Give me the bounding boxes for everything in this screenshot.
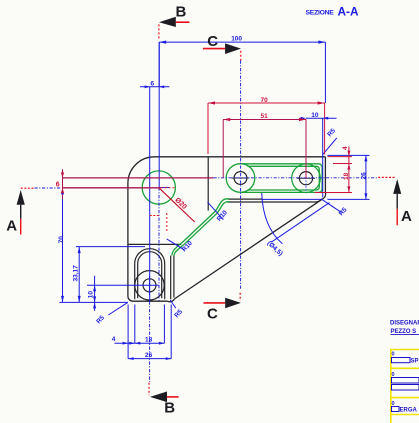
- svg-text:A-A: A-A: [338, 5, 359, 19]
- dim 26 right line: [365, 155, 367, 199]
- top-right-bottom fillet into diagonal: [323, 192, 326, 199]
- svg-text:C: C: [207, 33, 218, 50]
- leader (Ø4,5) arc: [262, 193, 283, 244]
- svg-text:SEZIONE: SEZIONE: [306, 9, 335, 16]
- dim 26 right ext bottom: [327, 198, 369, 200]
- C bottom tail: [204, 302, 226, 304]
- B top tail: [176, 21, 190, 23]
- leader R10 lower: [167, 239, 185, 250]
- dim 10 top-right line: [306, 117, 337, 119]
- left ext 10 center: [87, 284, 159, 286]
- arm slot right counterbore circle: [292, 164, 321, 193]
- leader R5 arm corner: [322, 200, 341, 213]
- dim 100 line: [159, 41, 325, 43]
- svg-text:10: 10: [311, 112, 319, 119]
- svg-text:100: 100: [231, 36, 242, 43]
- svg-text:PEZZO S: PEZZO S: [391, 329, 417, 335]
- B bottom arrow: [150, 392, 167, 403]
- svg-text:C: C: [207, 306, 218, 323]
- left ext 33,17 top: [76, 246, 145, 248]
- dim 100 ext right: [324, 42, 326, 103]
- left dim 10 line: [94, 276, 96, 311]
- arm bottom double edge: [227, 198, 262, 200]
- dim 6 line: [140, 86, 169, 88]
- svg-text:70: 70: [261, 97, 269, 104]
- red dim 4/18 right side: [315, 147, 352, 193]
- bottom dim 26 line: [128, 358, 171, 360]
- dim 6 ext left: [149, 87, 151, 301]
- red dim 51: [223, 120, 306, 179]
- web fillet curve inner: [174, 202, 229, 256]
- bottom-right fillet: [167, 299, 174, 302]
- svg-text:0: 0: [392, 372, 395, 378]
- svg-text:51: 51: [261, 113, 269, 120]
- leader R5 bottom-right: [170, 300, 176, 308]
- row2 rect1: [392, 378, 419, 384]
- bottom slot centerline dashdot: [149, 302, 151, 383]
- C section centerline through left hole: [240, 61, 242, 290]
- bottom edge: [133, 300, 168, 302]
- bottom ext x=171.2: [170, 305, 172, 359]
- row3 rect: [392, 407, 400, 412]
- big circle short horizontal: [159, 187, 170, 189]
- A-A left segment dashdot: [35, 187, 61, 189]
- svg-text:4: 4: [112, 336, 116, 343]
- red dots after big circle: [161, 187, 177, 189]
- B section line solid mid: [158, 42, 160, 187]
- right hole vertical centerline below: [305, 169, 307, 193]
- dim 26 right ext top: [327, 154, 369, 156]
- bottom hole vertical blue cross: [149, 276, 151, 295]
- yellow hline 3: [391, 397, 419, 399]
- svg-text:A: A: [401, 208, 412, 225]
- leader line under slot y=198.7: [262, 198, 323, 200]
- B bottom: red dotted stub: [148, 383, 150, 396]
- B top: red dotted stub: [158, 24, 160, 40]
- C bottom: red dots above: [239, 293, 241, 301]
- top-left fillet: [128, 157, 155, 184]
- svg-text:4: 4: [342, 146, 349, 150]
- svg-text:ERGA: ERGA: [400, 407, 418, 413]
- leg right double edge: [170, 256, 172, 300]
- leader R5 top-right: [323, 138, 337, 155]
- C top: red dotted stub below: [240, 51, 242, 61]
- B bottom tail: [167, 396, 179, 398]
- arm hole right cross horizontal: [297, 177, 315, 179]
- leader R10 upper: [208, 202, 224, 220]
- hole axis horizontal A-A right: [214, 177, 378, 179]
- svg-text:B: B: [164, 400, 175, 417]
- svg-text:26: 26: [145, 352, 153, 359]
- A left arrow: [17, 190, 25, 205]
- leader (Ø4,5) diagonal: [271, 203, 329, 243]
- leader R5 bottom-left: [108, 303, 127, 315]
- internal horizontal y=244.4: [128, 243, 181, 245]
- outer diagonal: [174, 199, 322, 299]
- C top arrow: [225, 43, 241, 54]
- arm hole right inner circle: [299, 172, 312, 185]
- arm hole left cross horizontal: [232, 177, 250, 179]
- A left shaft: [20, 205, 22, 219]
- yellow hline 4: [391, 414, 419, 416]
- C bottom arrow: [225, 298, 241, 309]
- svg-text:SP: SP: [411, 359, 419, 365]
- big boss circle: [142, 171, 175, 204]
- svg-text:18: 18: [343, 172, 350, 180]
- left ext bottom edge: [60, 301, 129, 303]
- right edge of part: [324, 157, 326, 192]
- yellow hline 2: [391, 367, 419, 369]
- svg-text:6: 6: [56, 181, 60, 188]
- yellow hline 1: [391, 349, 419, 351]
- bottom ext x=128.1: [127, 305, 129, 359]
- left edge: [127, 184, 129, 297]
- dim 100 ext left (B line upper solid part): [158, 42, 160, 87]
- svg-text:B: B: [176, 4, 187, 21]
- arm hole left inner circle: [234, 172, 247, 185]
- row2 rect2: [392, 385, 419, 391]
- C top: tail: [203, 48, 225, 50]
- svg-text:70: 70: [58, 236, 65, 244]
- red dim 70: [208, 103, 325, 155]
- internal vertical edge x=206.6: [207, 157, 209, 211]
- svg-text:A: A: [6, 217, 17, 234]
- arm slot outer outline: [241, 164, 323, 193]
- arm slot inner outline: [248, 166, 320, 190]
- bottom hole inner circle: [143, 279, 156, 292]
- svg-text:18: 18: [145, 336, 153, 343]
- row1 rect: [392, 358, 411, 363]
- svg-text:0: 0: [392, 352, 395, 358]
- svg-text:26: 26: [361, 172, 368, 180]
- bottom ext x=164.4: [163, 305, 165, 344]
- svg-text:10: 10: [88, 291, 95, 299]
- red dim 6 left side: [63, 169, 214, 199]
- svg-text:6: 6: [151, 81, 155, 88]
- arm slot left counterbore circle: [226, 164, 255, 193]
- red dotted below big circle x=166.8: [166, 213, 168, 231]
- bottom slot inner obround: [138, 252, 162, 298]
- B centerline lower dashdot: [158, 188, 160, 301]
- bottom counterbore outer circle: [135, 271, 164, 300]
- bottom dim 4-18 line: [115, 342, 165, 344]
- svg-text:33,17: 33,17: [73, 265, 80, 282]
- left dim 33,17 line: [78, 247, 80, 303]
- left dim 70 line: [62, 188, 64, 303]
- A left: red dotted stub: [21, 187, 34, 189]
- dim 10 ext right: [322, 118, 324, 197]
- bottom-left fillet: [128, 296, 133, 301]
- red jog B dotted: [150, 215, 159, 217]
- top edge: [155, 156, 326, 158]
- Ø20 leader red: [159, 188, 195, 222]
- B top arrow: [159, 17, 176, 27]
- A right arrow: [393, 179, 401, 194]
- A right shaft: [396, 194, 398, 209]
- A right: red dotted: [378, 176, 395, 178]
- bottom ext x=134.8: [134, 305, 136, 344]
- web fillet curve outer: [172, 199, 230, 256]
- bottom slot outer obround: [135, 249, 165, 300]
- yellow vline: [390, 349, 392, 423]
- svg-text:DISEGNARE: DISEGNARE: [390, 321, 419, 327]
